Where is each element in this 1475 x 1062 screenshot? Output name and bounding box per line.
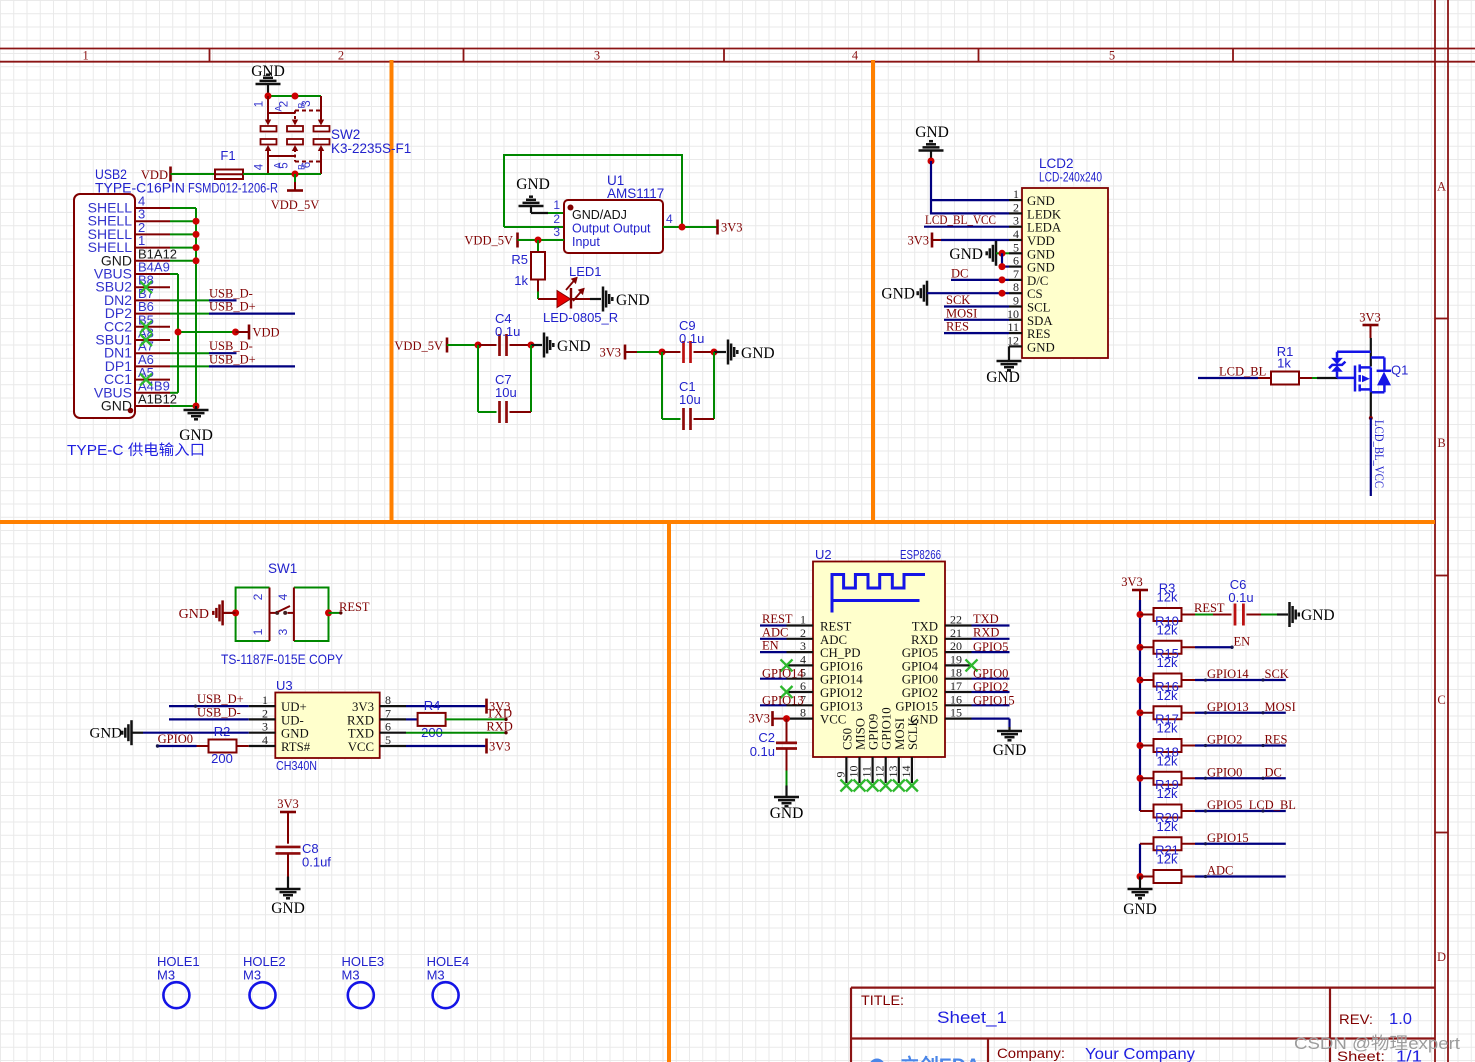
svg-text:AMS1117: AMS1117: [607, 186, 664, 201]
svg-text:VDD_5V: VDD_5V: [271, 198, 320, 212]
net USB_D+ to U3 pin1: [169, 705, 249, 707]
svg-text:3V3: 3V3: [748, 712, 770, 726]
svg-text:15: 15: [950, 706, 962, 720]
svg-text:20: 20: [950, 639, 962, 653]
svg-text:3V3: 3V3: [1121, 575, 1143, 589]
svg-text:6: 6: [301, 162, 313, 168]
USB2 pin1 marker dot: [128, 408, 134, 414]
svg-text:GPIO2: GPIO2: [902, 686, 938, 700]
svg-text:TXD: TXD: [912, 620, 938, 634]
svg-text:12k: 12k: [1157, 721, 1178, 736]
resistor R15 12k: [1140, 679, 1154, 681]
svg-text:12: 12: [1007, 333, 1019, 347]
junction: [292, 171, 299, 178]
svg-text:TS-1187F-015E COPY: TS-1187F-015E COPY: [221, 651, 344, 667]
svg-text:GPIO13: GPIO13: [1207, 700, 1249, 714]
U3 pin 3 GND: [249, 732, 276, 734]
svg-text:0.1u: 0.1u: [1228, 590, 1253, 605]
svg-text:VDD_5V: VDD_5V: [464, 234, 513, 248]
svg-text:EN: EN: [762, 639, 779, 653]
svg-text:GND: GND: [281, 727, 309, 741]
section divider vertical 3: [667, 522, 671, 1062]
svg-text:TXD: TXD: [973, 612, 999, 626]
svg-text:Output Output: Output Output: [572, 222, 651, 236]
junction: [1137, 677, 1144, 684]
svg-text:REST: REST: [1194, 601, 1225, 615]
ground symbol below C2: [774, 797, 799, 806]
svg-text:GND: GND: [881, 286, 915, 303]
svg-text:CS: CS: [1027, 287, 1043, 301]
wire GND to pin1: [548, 212, 564, 214]
svg-text:FSMD012-1206-R: FSMD012-1206-R: [188, 181, 278, 196]
svg-text:TXD: TXD: [486, 706, 512, 720]
svg-text:17: 17: [950, 679, 962, 693]
svg-text:GND: GND: [271, 900, 305, 917]
capacitor C7: [477, 345, 479, 412]
svg-text:EN: EN: [1234, 634, 1251, 648]
svg-text:5: 5: [1109, 49, 1115, 63]
ground symbol below LCD2 pin12: [1008, 346, 1010, 361]
junction: [1137, 742, 1144, 749]
svg-text:LCD-240x240: LCD-240x240: [1039, 170, 1102, 185]
svg-text:4: 4: [666, 212, 673, 226]
resistor R4 at U3 pin7: [406, 718, 418, 720]
svg-text:GND: GND: [516, 176, 550, 193]
svg-text:7: 7: [385, 706, 391, 720]
svg-text:GND: GND: [90, 726, 123, 742]
ground symbol right of LED1: [603, 287, 612, 312]
svg-text:LCD_BL_VCC: LCD_BL_VCC: [1372, 420, 1386, 488]
U3 pin 8 3V3: [380, 705, 406, 707]
svg-text:GND: GND: [993, 742, 1027, 759]
net USB_D+ from DP2: [170, 313, 209, 315]
svg-text:1: 1: [553, 198, 560, 212]
SW1 contacts: [270, 612, 276, 614]
svg-text:USB_D+: USB_D+: [209, 352, 256, 366]
section divider vertical 1: [390, 60, 394, 522]
net GPIO15 from R20: [1195, 843, 1286, 845]
svg-text:UD-: UD-: [281, 713, 304, 727]
svg-text:GPIO0: GPIO0: [973, 667, 1008, 681]
resistor R19 12k: [1140, 810, 1154, 812]
svg-text:Sheet_1: Sheet_1: [937, 1008, 1007, 1027]
junction: [475, 342, 482, 349]
net GPIO0 from U2 pin18: [972, 678, 1010, 680]
svg-text:13: 13: [886, 766, 900, 778]
svg-text:GND: GND: [949, 246, 983, 263]
net REST at SW1: [329, 612, 342, 614]
power flag 3V3 at U3 pin8: [406, 705, 485, 707]
wire VDD_5V to pin3: [518, 239, 565, 241]
svg-text:MOSI: MOSI: [893, 718, 907, 750]
svg-text:12k: 12k: [1157, 655, 1178, 670]
svg-text:SCLK: SCLK: [906, 717, 920, 750]
U3 pin 5 VCC: [380, 745, 406, 747]
LCD2 pin 11 RES: [1009, 332, 1022, 334]
junctions SHELL bus: [193, 218, 200, 225]
svg-text:3: 3: [1013, 214, 1019, 228]
wire 3V3 bus vertical: [1139, 600, 1141, 811]
svg-text:GND: GND: [1027, 340, 1055, 354]
svg-text:GPIO15: GPIO15: [895, 699, 938, 713]
transistor Q1 PMOS with zener: [1329, 352, 1391, 393]
wire R5 to LED1: [537, 292, 539, 300]
svg-text:GPIO10: GPIO10: [880, 707, 894, 750]
net LCD_BL: [1198, 377, 1258, 379]
capacitor C1: [661, 352, 663, 419]
net GPIO15 from U2 pin16: [972, 704, 1010, 706]
regulator U1 AMS1117: [564, 200, 663, 253]
wire LED1 to GND: [571, 298, 590, 300]
svg-text:ADC: ADC: [762, 625, 788, 639]
svg-text:RXD: RXD: [973, 625, 999, 639]
wire to C9: [625, 351, 637, 353]
svg-text:GND: GND: [915, 124, 949, 141]
svg-text:RXD: RXD: [486, 720, 512, 734]
svg-text:3: 3: [800, 639, 806, 653]
net REST to U2 pin1: [760, 624, 787, 626]
svg-text:1: 1: [800, 613, 806, 627]
LCD2 pin 4 VDD: [1009, 239, 1022, 241]
wire VDD to fuse: [171, 173, 216, 175]
svg-text:U3: U3: [276, 678, 293, 693]
svg-text:R4: R4: [424, 698, 441, 713]
wire fuse to SW2: [243, 173, 321, 175]
net GPIO0 from R18: [1195, 777, 1286, 779]
section divider horizontal: [0, 520, 1435, 524]
svg-text:UD+: UD+: [281, 700, 307, 714]
junction: [535, 237, 542, 244]
junction: [1137, 709, 1144, 716]
svg-text:6: 6: [800, 679, 806, 693]
U2 pin 11 GPIO9: [871, 757, 873, 783]
svg-text:4: 4: [254, 163, 266, 170]
svg-text:2: 2: [1013, 200, 1019, 214]
svg-text:4: 4: [262, 733, 268, 747]
svg-text:VDD: VDD: [1027, 234, 1055, 248]
LCD2 pin 5 GND: [1009, 252, 1022, 254]
resistor R21 12k: [1140, 876, 1154, 878]
svg-text:5: 5: [279, 162, 291, 168]
svg-text:MOSI: MOSI: [1265, 700, 1296, 714]
svg-text:GPIO16: GPIO16: [820, 659, 863, 673]
svg-text:9: 9: [1013, 294, 1019, 308]
ground symbol right of C6: [1290, 602, 1299, 627]
svg-text:2: 2: [553, 212, 560, 226]
svg-text:16: 16: [950, 692, 962, 706]
svg-text:C2: C2: [758, 730, 775, 745]
svg-text:12: 12: [873, 766, 887, 778]
U2 pin 9 CS0: [845, 757, 847, 783]
junction: [528, 342, 535, 349]
svg-text:Company:: Company:: [997, 1045, 1065, 1061]
svg-text:3: 3: [276, 628, 290, 635]
svg-text:REST: REST: [762, 612, 793, 626]
svg-text:3V3: 3V3: [352, 700, 374, 714]
svg-text:GND: GND: [1027, 261, 1055, 275]
U2 pin 16 GPIO15: [945, 704, 972, 706]
net ADC to U2 pin2: [760, 638, 787, 640]
svg-text:GPIO2: GPIO2: [1207, 733, 1242, 747]
svg-text:12k: 12k: [1157, 590, 1178, 605]
power flag 3V3 at U3 pin5: [406, 745, 485, 747]
wire C2 to GND: [786, 749, 788, 771]
svg-text:ESP8266: ESP8266: [900, 547, 941, 562]
LCD2 pin 7 D/C: [1009, 279, 1022, 281]
svg-text:4: 4: [800, 652, 806, 666]
no-connect X marks on USB2 pins: [140, 281, 152, 293]
svg-text:SCK: SCK: [946, 293, 970, 307]
svg-text:11: 11: [1007, 320, 1019, 334]
svg-text:D: D: [1437, 950, 1446, 964]
svg-text:VCC: VCC: [348, 740, 374, 754]
EasyEDA logo: [869, 1059, 885, 1062]
svg-text:12k: 12k: [1157, 819, 1178, 834]
svg-text:R5: R5: [511, 252, 528, 267]
svg-text:LCD_BL: LCD_BL: [1249, 798, 1296, 812]
net EN from R10: [1195, 646, 1233, 648]
LED LED1: [557, 291, 571, 308]
svg-text:10u: 10u: [679, 392, 701, 407]
svg-text:11: 11: [860, 766, 874, 778]
net USB_D+ from DP1: [170, 365, 209, 367]
U2 pin 12 GPIO10: [885, 757, 887, 783]
resistor R17 12k: [1140, 745, 1154, 747]
svg-text:RES: RES: [946, 320, 969, 334]
junction: [999, 263, 1006, 270]
net GPIO14 from R15: [1195, 679, 1286, 681]
svg-text:GPIO13: GPIO13: [820, 699, 863, 713]
ground symbol above SW2: [256, 75, 281, 84]
LCD2 pin 12 GND: [1009, 345, 1022, 347]
svg-text:200: 200: [211, 751, 233, 766]
svg-text:M3: M3: [157, 968, 175, 983]
svg-text:5: 5: [385, 733, 391, 747]
svg-text:GND: GND: [616, 292, 650, 309]
capacitor C4: [478, 344, 497, 346]
svg-text:LED1: LED1: [569, 264, 602, 279]
net GPIO14 to U2 pin5: [760, 678, 787, 680]
title block: [851, 988, 1435, 1062]
wire SW2 top: [268, 95, 321, 97]
U2 pin 20 GPIO5: [945, 651, 972, 653]
net GPIO13 to U2 pin7: [760, 704, 787, 706]
svg-text:8: 8: [385, 693, 391, 707]
svg-text:GPIO0: GPIO0: [158, 732, 193, 746]
svg-text:GPIO14: GPIO14: [1207, 667, 1249, 681]
svg-text:CS0: CS0: [840, 728, 854, 750]
wire GND bus vertical: [1139, 844, 1141, 877]
svg-text:GPIO0: GPIO0: [902, 673, 938, 687]
junction: [265, 93, 272, 100]
svg-text:U2: U2: [815, 547, 832, 562]
svg-text:GPIO5: GPIO5: [902, 646, 938, 660]
capacitor C6: [1235, 604, 1243, 626]
svg-text:GPIO15: GPIO15: [1207, 831, 1249, 845]
ground symbol right of C9: [714, 351, 726, 353]
svg-text:0.1uf: 0.1uf: [302, 855, 331, 870]
svg-text:12k: 12k: [1157, 688, 1178, 703]
LCD2 pin 9 SCL: [1009, 305, 1022, 307]
svg-text:GPIO5: GPIO5: [1207, 798, 1242, 812]
U3 pin 1 UD+: [249, 705, 276, 707]
svg-text:M3: M3: [427, 968, 445, 983]
svg-text:GPIO0: GPIO0: [1207, 765, 1242, 779]
ground symbol right of C4: [531, 344, 542, 346]
svg-text:RTS#: RTS#: [281, 740, 311, 754]
U2 pin 19 GPIO4: [945, 664, 972, 666]
svg-text:2: 2: [338, 49, 344, 63]
svg-text:USB_D-: USB_D-: [197, 705, 241, 719]
wire VBUS bus: [170, 274, 237, 393]
U2 pin 2 ADC: [787, 638, 814, 640]
svg-text:USB_D+: USB_D+: [197, 692, 244, 706]
svg-text:REST: REST: [820, 620, 851, 634]
junction: [1137, 611, 1144, 618]
svg-text:3: 3: [594, 49, 600, 63]
svg-text:REV:: REV:: [1339, 1011, 1373, 1027]
ground symbol below USB2: [195, 406, 197, 410]
svg-text:2: 2: [279, 101, 291, 107]
capacitor C8: [287, 812, 289, 844]
net GPIO5 from U2 pin20: [972, 651, 1010, 653]
svg-text:ADC: ADC: [820, 633, 847, 647]
junction: [999, 250, 1006, 257]
wire GND to LCD2 pins 1-2: [931, 161, 1009, 213]
svg-text:VDD_5V: VDD_5V: [394, 339, 443, 353]
svg-text:GND: GND: [1027, 194, 1055, 208]
svg-text:SCK: SCK: [1265, 667, 1289, 681]
junction: [659, 349, 666, 356]
svg-text:ADC: ADC: [1207, 864, 1233, 878]
svg-text:GND: GND: [1123, 901, 1157, 918]
wire GND to U3 pin3: [143, 732, 249, 734]
ground symbol below resistor network: [1128, 889, 1153, 898]
svg-text:4: 4: [852, 49, 859, 63]
svg-text:GND: GND: [770, 805, 804, 822]
svg-text:DC: DC: [951, 266, 968, 280]
junction: [1137, 644, 1144, 651]
svg-text:MOSI: MOSI: [946, 306, 977, 320]
svg-text:3: 3: [553, 225, 560, 239]
svg-text:A: A: [1437, 180, 1446, 194]
U2 pin 8 VCC: [787, 717, 814, 719]
svg-text:GND: GND: [741, 345, 775, 362]
svg-text:GPIO9: GPIO9: [867, 714, 881, 750]
svg-text:LCD_BL_VCC: LCD_BL_VCC: [925, 213, 996, 227]
U2 pin 14 SCLK: [911, 757, 913, 783]
svg-text:GPIO15: GPIO15: [973, 693, 1015, 707]
U2 pin 18 GPIO0: [945, 678, 972, 680]
ESP8266 logo: [832, 575, 925, 613]
wire R1 to Q1 gate: [1312, 377, 1317, 379]
U3 pin 6 TXD: [380, 732, 406, 734]
svg-text:GPIO13: GPIO13: [762, 693, 804, 707]
power flag VDD_5V: [294, 174, 296, 182]
svg-text:R2: R2: [214, 724, 231, 739]
svg-text:CH_PD: CH_PD: [820, 646, 861, 660]
svg-text:GND: GND: [986, 369, 1020, 386]
junction: [783, 715, 790, 722]
svg-text:21: 21: [950, 626, 962, 640]
wire SHELL/GND bus: [170, 208, 196, 406]
section divider vertical 2: [871, 60, 875, 522]
svg-text:1: 1: [262, 693, 268, 707]
svg-text:10u: 10u: [495, 385, 517, 400]
U2 pin 6 GPIO12: [787, 691, 814, 693]
net GPIO5 from R19: [1195, 810, 1286, 812]
svg-text:TITLE:: TITLE:: [861, 992, 904, 1008]
wire pin4 to 3V3: [663, 226, 717, 228]
svg-text:GPIO5: GPIO5: [973, 640, 1008, 654]
svg-text:12k: 12k: [1157, 852, 1178, 867]
power flag 3V3 at U1 out: [716, 220, 719, 235]
junction: [1137, 873, 1144, 880]
net EN to U2 pin3: [760, 651, 787, 653]
svg-text:3V3: 3V3: [721, 221, 743, 235]
svg-text:1k: 1k: [514, 273, 528, 288]
svg-text:TXD: TXD: [348, 727, 374, 741]
resistor R3 12k: [1140, 614, 1154, 616]
svg-text:DC: DC: [1265, 765, 1282, 779]
svg-text:立创EDA: 立创EDA: [900, 1054, 980, 1062]
svg-text:RXD: RXD: [347, 713, 374, 727]
svg-text:0.1u: 0.1u: [495, 324, 520, 339]
svg-text:GND/ADJ: GND/ADJ: [572, 208, 627, 222]
svg-text:0.1u: 0.1u: [679, 331, 704, 346]
svg-text:GND: GND: [179, 427, 213, 444]
svg-text:6: 6: [385, 720, 391, 734]
LCD2 pin 6 GND: [1009, 266, 1022, 268]
svg-text:4: 4: [276, 593, 290, 600]
U2 pin 7 GPIO13: [787, 704, 814, 706]
svg-text:REST: REST: [339, 600, 370, 614]
svg-text:6: 6: [1013, 254, 1019, 268]
junction SW1 left: [232, 609, 239, 616]
svg-text:Your Company: Your Company: [1085, 1046, 1195, 1062]
svg-text:CSDN @物理expert: CSDN @物理expert: [1294, 1034, 1460, 1053]
net RXD from U3 pin6: [406, 732, 507, 734]
net TXD from U2 pin22: [972, 624, 1010, 626]
U3 pin 7 RXD: [380, 718, 406, 720]
svg-text:1: 1: [82, 49, 88, 63]
wire pin5 to pin6: [1001, 253, 1003, 266]
U2 pin 15 GND: [945, 717, 972, 719]
wire to C4: [447, 344, 478, 346]
net LCD_BL_VCC vertical: [1370, 418, 1372, 496]
U2 pin 5 GPIO14: [787, 678, 814, 680]
svg-text:VCC: VCC: [820, 713, 846, 727]
wire U2 pin15 to GND: [972, 717, 1010, 719]
svg-text:SW1: SW1: [268, 561, 297, 576]
ground symbol below U2 pin15: [997, 731, 1022, 740]
net GPIO13 from R16: [1195, 712, 1286, 714]
svg-text:B: B: [1437, 436, 1445, 450]
svg-text:TYPE-C 供电输入口: TYPE-C 供电输入口: [67, 442, 205, 459]
svg-text:USB_D+: USB_D+: [209, 300, 256, 314]
resistor R18 12k: [1140, 777, 1154, 779]
svg-text:MISO: MISO: [854, 718, 868, 750]
svg-text:8: 8: [800, 706, 806, 720]
svg-text:1: 1: [254, 101, 266, 107]
junction: [1137, 775, 1144, 782]
net GPIO2 from U2 pin17: [972, 691, 1010, 693]
net RXD from U2 pin21: [972, 638, 1010, 640]
net TXD from R4: [446, 718, 507, 720]
no-connect X U2 pin19: [966, 659, 978, 671]
svg-text:0.1u: 0.1u: [750, 744, 775, 759]
svg-text:5: 5: [1013, 240, 1019, 254]
